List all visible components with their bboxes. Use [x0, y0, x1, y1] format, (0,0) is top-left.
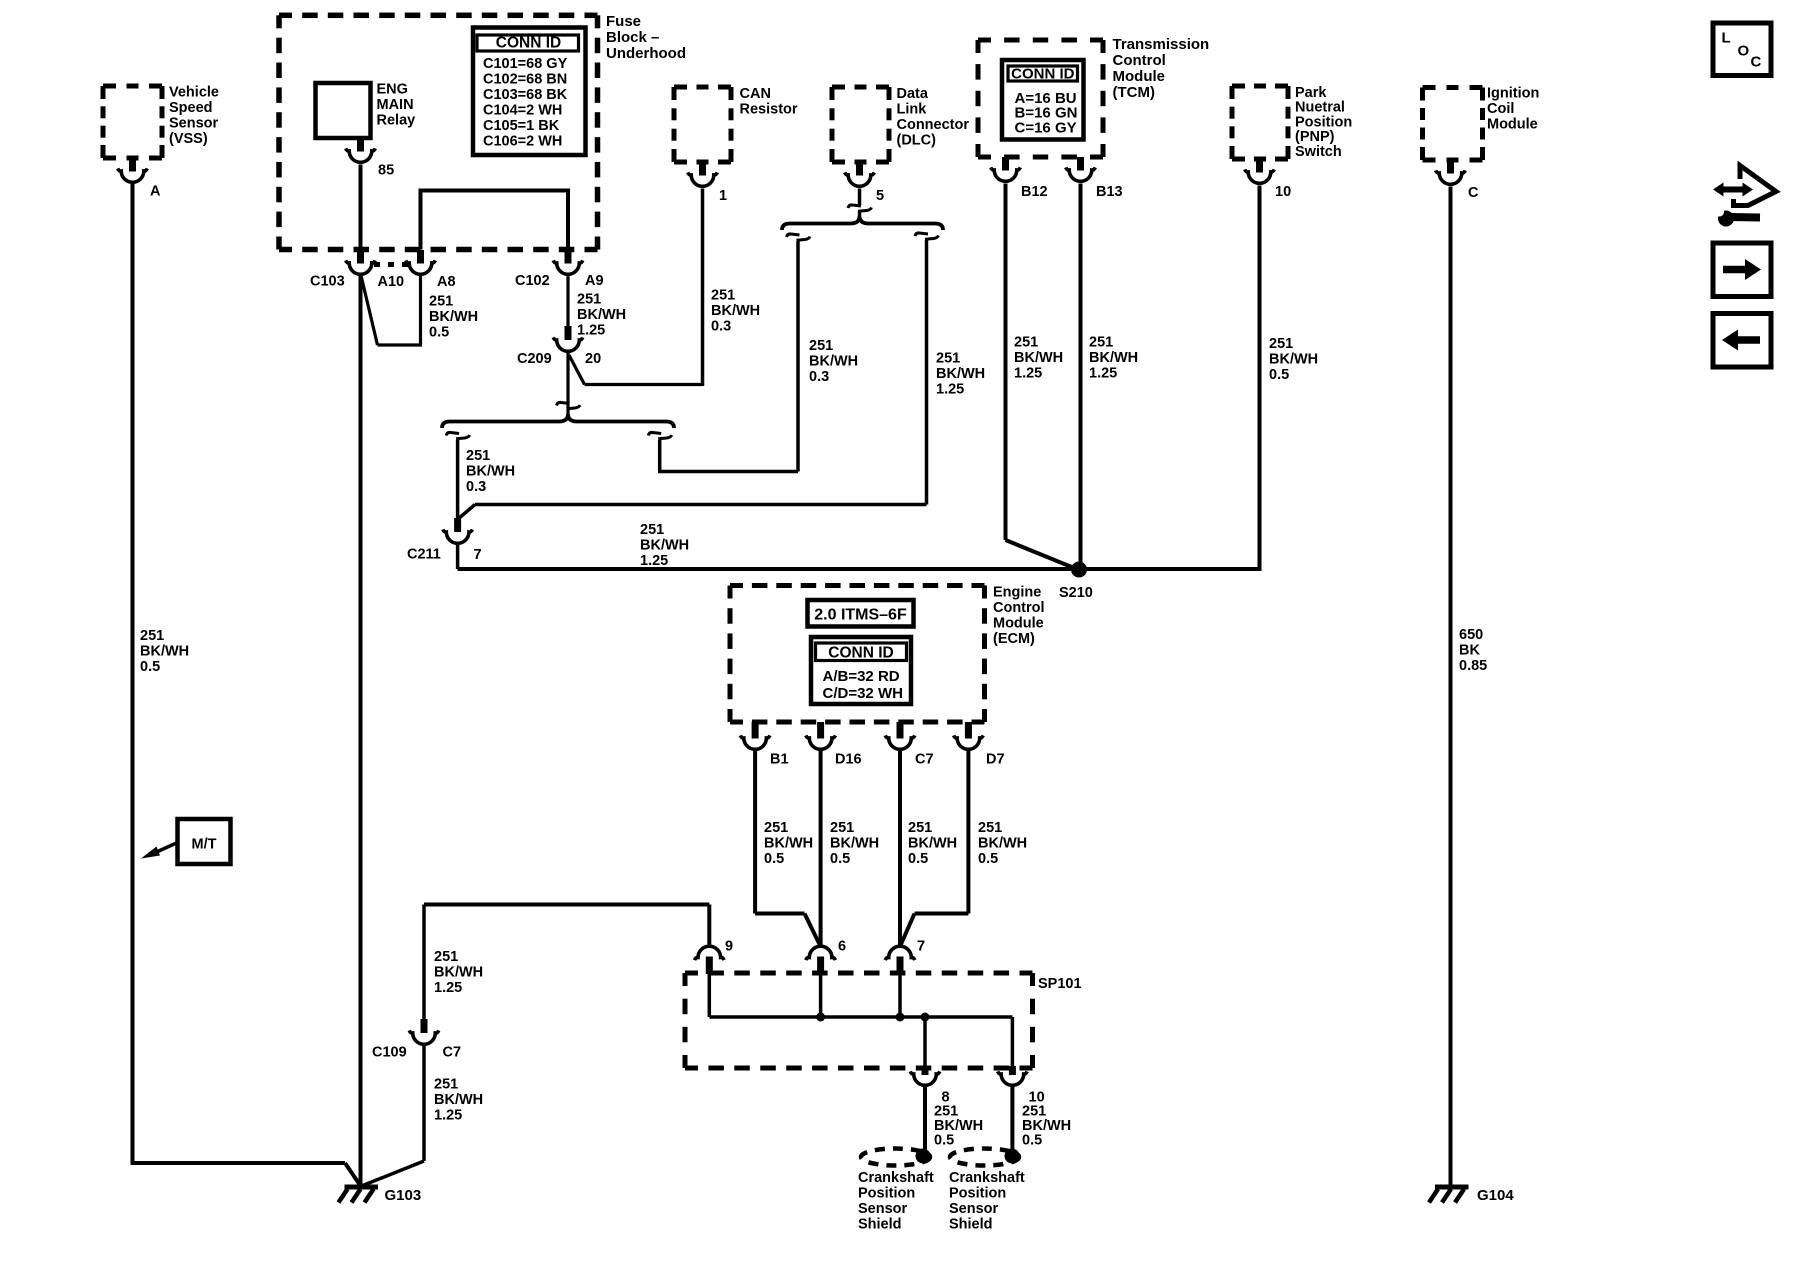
svg-text:C105=1 BK: C105=1 BK [483, 118, 560, 134]
svg-text:ENG: ENG [377, 82, 408, 98]
svg-text:C103: C103 [310, 274, 345, 290]
svg-text:O: O [1738, 43, 1750, 60]
svg-text:Resistor: Resistor [740, 102, 798, 118]
svg-text:Block –: Block – [606, 29, 659, 46]
svg-text:C103=68 BK: C103=68 BK [483, 87, 568, 103]
svg-text:0.5: 0.5 [429, 325, 449, 341]
svg-text:0.5: 0.5 [830, 851, 850, 867]
svg-text:1.25: 1.25 [640, 553, 668, 569]
svg-text:BK/WH: BK/WH [809, 354, 858, 370]
svg-text:251: 251 [466, 448, 490, 464]
svg-text:C: C [1468, 185, 1479, 201]
svg-text:B12: B12 [1021, 184, 1048, 200]
svg-text:Shield: Shield [858, 1217, 902, 1233]
svg-text:1.25: 1.25 [1089, 366, 1117, 382]
svg-text:7: 7 [917, 939, 925, 955]
svg-text:BK/WH: BK/WH [978, 836, 1027, 852]
svg-text:CONN ID: CONN ID [828, 645, 893, 662]
svg-text:251: 251 [140, 628, 164, 644]
svg-text:A9: A9 [585, 273, 604, 289]
svg-text:6: 6 [838, 939, 846, 955]
svg-text:Position: Position [1295, 114, 1352, 130]
svg-text:BK/WH: BK/WH [908, 836, 957, 852]
svg-text:G103: G103 [385, 1187, 422, 1204]
svg-text:Data: Data [897, 86, 929, 102]
svg-text:A8: A8 [437, 274, 456, 290]
svg-text:251: 251 [1089, 335, 1113, 351]
svg-text:251: 251 [936, 351, 960, 367]
svg-text:0.5: 0.5 [908, 851, 928, 867]
svg-text:C7: C7 [443, 1045, 462, 1061]
svg-text:1.25: 1.25 [434, 1108, 462, 1124]
svg-text:Transmission: Transmission [1113, 36, 1210, 53]
svg-text:BK/WH: BK/WH [764, 836, 813, 852]
svg-text:Nuetral: Nuetral [1295, 100, 1345, 116]
svg-text:0.5: 0.5 [764, 851, 784, 867]
svg-text:BK/WH: BK/WH [711, 303, 760, 319]
svg-text:1.25: 1.25 [434, 980, 462, 996]
svg-text:Module: Module [993, 616, 1044, 632]
svg-text:0.5: 0.5 [1269, 367, 1289, 383]
svg-text:Switch: Switch [1295, 144, 1342, 160]
svg-text:(DLC): (DLC) [897, 133, 937, 149]
svg-text:1.25: 1.25 [577, 323, 605, 339]
svg-text:Control: Control [993, 600, 1045, 616]
svg-text:CONN ID: CONN ID [1011, 66, 1075, 83]
svg-text:Engine: Engine [993, 585, 1041, 601]
svg-text:C209: C209 [517, 351, 552, 367]
svg-text:0.3: 0.3 [711, 319, 731, 335]
svg-text:BK/WH: BK/WH [640, 538, 689, 554]
svg-text:251: 251 [577, 292, 601, 308]
svg-text:C104=2 WH: C104=2 WH [483, 103, 562, 119]
svg-text:251: 251 [1269, 336, 1293, 352]
svg-text:BK/WH: BK/WH [936, 366, 985, 382]
svg-text:C7: C7 [915, 752, 934, 768]
svg-text:(PNP): (PNP) [1295, 129, 1335, 145]
svg-text:A10: A10 [378, 274, 405, 290]
svg-text:C102=68 BN: C102=68 BN [483, 72, 567, 88]
svg-text:Sensor: Sensor [949, 1201, 999, 1217]
svg-text:D16: D16 [835, 752, 862, 768]
svg-text:1.25: 1.25 [1014, 366, 1042, 382]
svg-text:Crankshaft: Crankshaft [858, 1170, 934, 1186]
svg-text:BK/WH: BK/WH [140, 644, 189, 660]
svg-text:BK/WH: BK/WH [434, 1092, 483, 1108]
svg-text:Sensor: Sensor [858, 1201, 908, 1217]
svg-text:BK/WH: BK/WH [429, 309, 478, 325]
svg-text:B13: B13 [1096, 184, 1123, 200]
svg-text:251: 251 [711, 288, 735, 304]
svg-text:C101=68 GY: C101=68 GY [483, 56, 568, 72]
svg-text:Position: Position [949, 1186, 1006, 1202]
svg-text:(TCM): (TCM) [1113, 84, 1155, 101]
svg-text:Connector: Connector [897, 117, 970, 133]
svg-text:Park: Park [1295, 85, 1327, 101]
svg-text:650: 650 [1459, 627, 1483, 643]
svg-text:C109: C109 [372, 1045, 407, 1061]
svg-text:251: 251 [1014, 335, 1038, 351]
svg-text:C211: C211 [407, 547, 441, 563]
svg-text:BK/WH: BK/WH [466, 464, 515, 480]
svg-text:85: 85 [378, 163, 394, 179]
svg-text:251: 251 [908, 820, 932, 836]
svg-text:BK/WH: BK/WH [434, 965, 483, 981]
svg-text:G104: G104 [1477, 1187, 1514, 1204]
svg-text:BK/WH: BK/WH [577, 307, 626, 323]
svg-text:BK/WH: BK/WH [1014, 350, 1063, 366]
svg-text:A: A [150, 184, 161, 200]
svg-text:BK/WH: BK/WH [1089, 350, 1138, 366]
svg-text:C106=2 WH: C106=2 WH [483, 134, 562, 150]
svg-text:0.85: 0.85 [1459, 658, 1487, 674]
svg-text:10: 10 [1275, 184, 1291, 200]
svg-text:Link: Link [897, 102, 928, 118]
svg-text:251: 251 [434, 949, 458, 965]
svg-text:Shield: Shield [949, 1217, 993, 1233]
svg-text:1: 1 [719, 188, 727, 204]
svg-text:BK/WH: BK/WH [1269, 352, 1318, 368]
svg-text:(VSS): (VSS) [169, 131, 208, 147]
svg-text:0.5: 0.5 [140, 659, 160, 675]
svg-text:2.0 ITMS–6F: 2.0 ITMS–6F [814, 607, 907, 624]
svg-text:Fuse: Fuse [606, 13, 641, 30]
svg-text:S210: S210 [1059, 585, 1093, 601]
svg-text:Speed: Speed [169, 100, 213, 116]
svg-text:D7: D7 [986, 752, 1005, 768]
svg-text:Position: Position [858, 1186, 915, 1202]
svg-text:0.5: 0.5 [934, 1133, 954, 1149]
svg-text:251: 251 [434, 1077, 458, 1093]
svg-text:A/B=32 RD: A/B=32 RD [823, 668, 900, 685]
svg-text:B1: B1 [770, 752, 789, 768]
svg-text:Underhood: Underhood [606, 45, 686, 62]
svg-text:CONN ID: CONN ID [496, 35, 561, 52]
svg-text:0.3: 0.3 [809, 369, 829, 385]
svg-text:251: 251 [978, 820, 1002, 836]
svg-text:1.25: 1.25 [936, 382, 964, 398]
svg-text:251: 251 [640, 522, 664, 538]
svg-text:0.5: 0.5 [1022, 1133, 1042, 1149]
svg-text:Vehicle: Vehicle [169, 85, 219, 101]
svg-text:MAIN: MAIN [377, 97, 414, 113]
svg-text:9: 9 [725, 939, 733, 955]
svg-text:251: 251 [830, 820, 854, 836]
svg-text:251: 251 [429, 294, 453, 310]
svg-text:Relay: Relay [377, 113, 416, 129]
svg-text:L: L [1722, 30, 1731, 47]
svg-text:0.3: 0.3 [466, 479, 486, 495]
svg-text:C102: C102 [515, 273, 550, 289]
svg-text:CAN: CAN [740, 86, 771, 102]
svg-text:Coil: Coil [1487, 101, 1514, 117]
svg-text:BK: BK [1459, 643, 1480, 659]
svg-text:251: 251 [809, 338, 833, 354]
svg-text:Crankshaft: Crankshaft [949, 1170, 1025, 1186]
svg-text:M/T: M/T [192, 837, 217, 853]
svg-text:(ECM): (ECM) [993, 631, 1035, 647]
svg-text:5: 5 [876, 188, 884, 204]
svg-text:Control: Control [1113, 52, 1166, 69]
svg-text:C: C [1751, 54, 1762, 71]
svg-text:Ignition: Ignition [1487, 86, 1539, 102]
svg-text:C=16 GY: C=16 GY [1015, 120, 1077, 137]
svg-text:251: 251 [764, 820, 788, 836]
svg-text:Module: Module [1487, 117, 1538, 133]
svg-text:C/D=32 WH: C/D=32 WH [823, 685, 903, 702]
svg-text:20: 20 [585, 351, 601, 367]
svg-text:BK/WH: BK/WH [830, 836, 879, 852]
svg-text:SP101: SP101 [1038, 976, 1082, 992]
svg-text:0.5: 0.5 [978, 851, 998, 867]
svg-text:Module: Module [1113, 68, 1166, 85]
svg-text:7: 7 [474, 547, 482, 563]
svg-text:Sensor: Sensor [169, 116, 219, 132]
